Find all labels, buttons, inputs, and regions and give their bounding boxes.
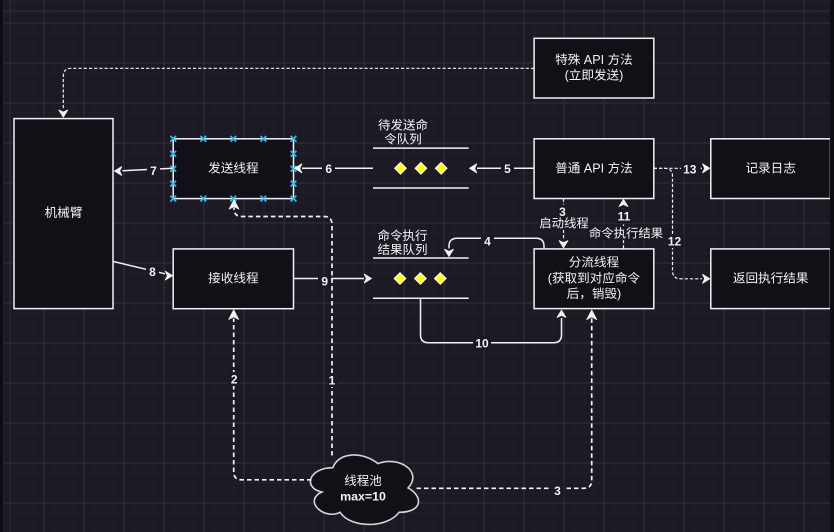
wire: arrow 7 发送线程→机械臂 <box>115 164 174 179</box>
wire: arrow 5 普通API→待发送队列 <box>470 162 535 177</box>
wire: arrow 13 普通API→记录日志 <box>654 162 710 177</box>
wire: arrow 8 机械臂→接收线程 <box>114 262 173 281</box>
connection point markers on 发送线程 <box>170 136 296 202</box>
svg-text:6: 6 <box>325 162 332 176</box>
box 发送线程 <box>173 139 293 199</box>
box 机械臂 <box>14 119 113 309</box>
off-canvas right strip <box>830 0 834 532</box>
wire: arrow 3b 线程池→分流线程 <box>417 310 597 498</box>
wire: arrow 6 待发送队列→发送线程 <box>295 162 373 177</box>
queue 命令执行结果队列 diamonds <box>394 273 446 284</box>
svg-text:(立即发送): (立即发送) <box>565 64 624 83</box>
svg-text:5: 5 <box>504 162 511 176</box>
svg-text:3: 3 <box>554 484 561 498</box>
svg-text:2: 2 <box>231 373 238 387</box>
box 返回执行结果 <box>711 249 831 309</box>
svg-text:命令执行结果: 命令执行结果 <box>589 224 663 242</box>
wire: arrow 1 线程池→发送线程 <box>229 200 338 456</box>
svg-text:普通 API 方法: 普通 API 方法 <box>555 157 633 176</box>
svg-text:11: 11 <box>618 210 631 224</box>
wire: arrow 11 命令执行结果 分流线程→普通API <box>588 199 664 248</box>
svg-text:结果队列: 结果队列 <box>377 239 427 258</box>
svg-text:发送线程: 发送线程 <box>208 157 259 176</box>
svg-text:10: 10 <box>475 337 489 351</box>
queue 命令执行结果队列 (lines) <box>373 225 469 298</box>
svg-text:12: 12 <box>668 235 682 249</box>
box 分流线程 <box>534 249 654 309</box>
svg-text:7: 7 <box>150 164 157 178</box>
off-canvas left strip <box>0 0 3 532</box>
wire: arrow 4 分流线程→结果队列 <box>445 234 544 257</box>
wire: arrow 9 接收线程→结果队列 <box>294 274 372 289</box>
svg-text:返回执行结果: 返回执行结果 <box>733 267 809 286</box>
svg-text:max=10: max=10 <box>340 487 386 505</box>
svg-text:4: 4 <box>484 235 491 249</box>
svg-text:令队列: 令队列 <box>384 129 422 148</box>
wire: arrow 10 结果队列→分流线程 <box>421 298 566 350</box>
wire: arrow 3 启动线程 普通API→分流线程 <box>538 199 590 248</box>
svg-text:13: 13 <box>683 163 697 177</box>
queue 待发送命令队列 diamonds <box>395 163 447 174</box>
box 普通 API 方法 <box>534 139 654 199</box>
svg-text:8: 8 <box>149 265 156 279</box>
queue 待发送命令队列 (lines) <box>373 115 469 188</box>
box 记录日志 <box>711 139 831 199</box>
svg-text:启动线程: 启动线程 <box>539 214 589 232</box>
cloud 线程池 max=10 <box>310 455 418 524</box>
svg-text:机械臂: 机械臂 <box>44 202 82 221</box>
svg-text:1: 1 <box>329 374 336 388</box>
wire: arrow 2 线程池→接收线程 <box>228 310 312 480</box>
box 特殊 API 方法 <box>534 38 654 98</box>
svg-text:9: 9 <box>321 275 328 289</box>
wire: dashed arrow 特殊API→机械臂 <box>59 68 534 117</box>
box 接收线程 <box>173 249 293 309</box>
svg-text:记录日志: 记录日志 <box>745 157 795 176</box>
svg-text:后，销毁): 后，销毁) <box>567 283 622 302</box>
svg-text:接收线程: 接收线程 <box>208 267 259 286</box>
wire: arrow 12 普通API→返回执行结果 <box>654 168 710 283</box>
